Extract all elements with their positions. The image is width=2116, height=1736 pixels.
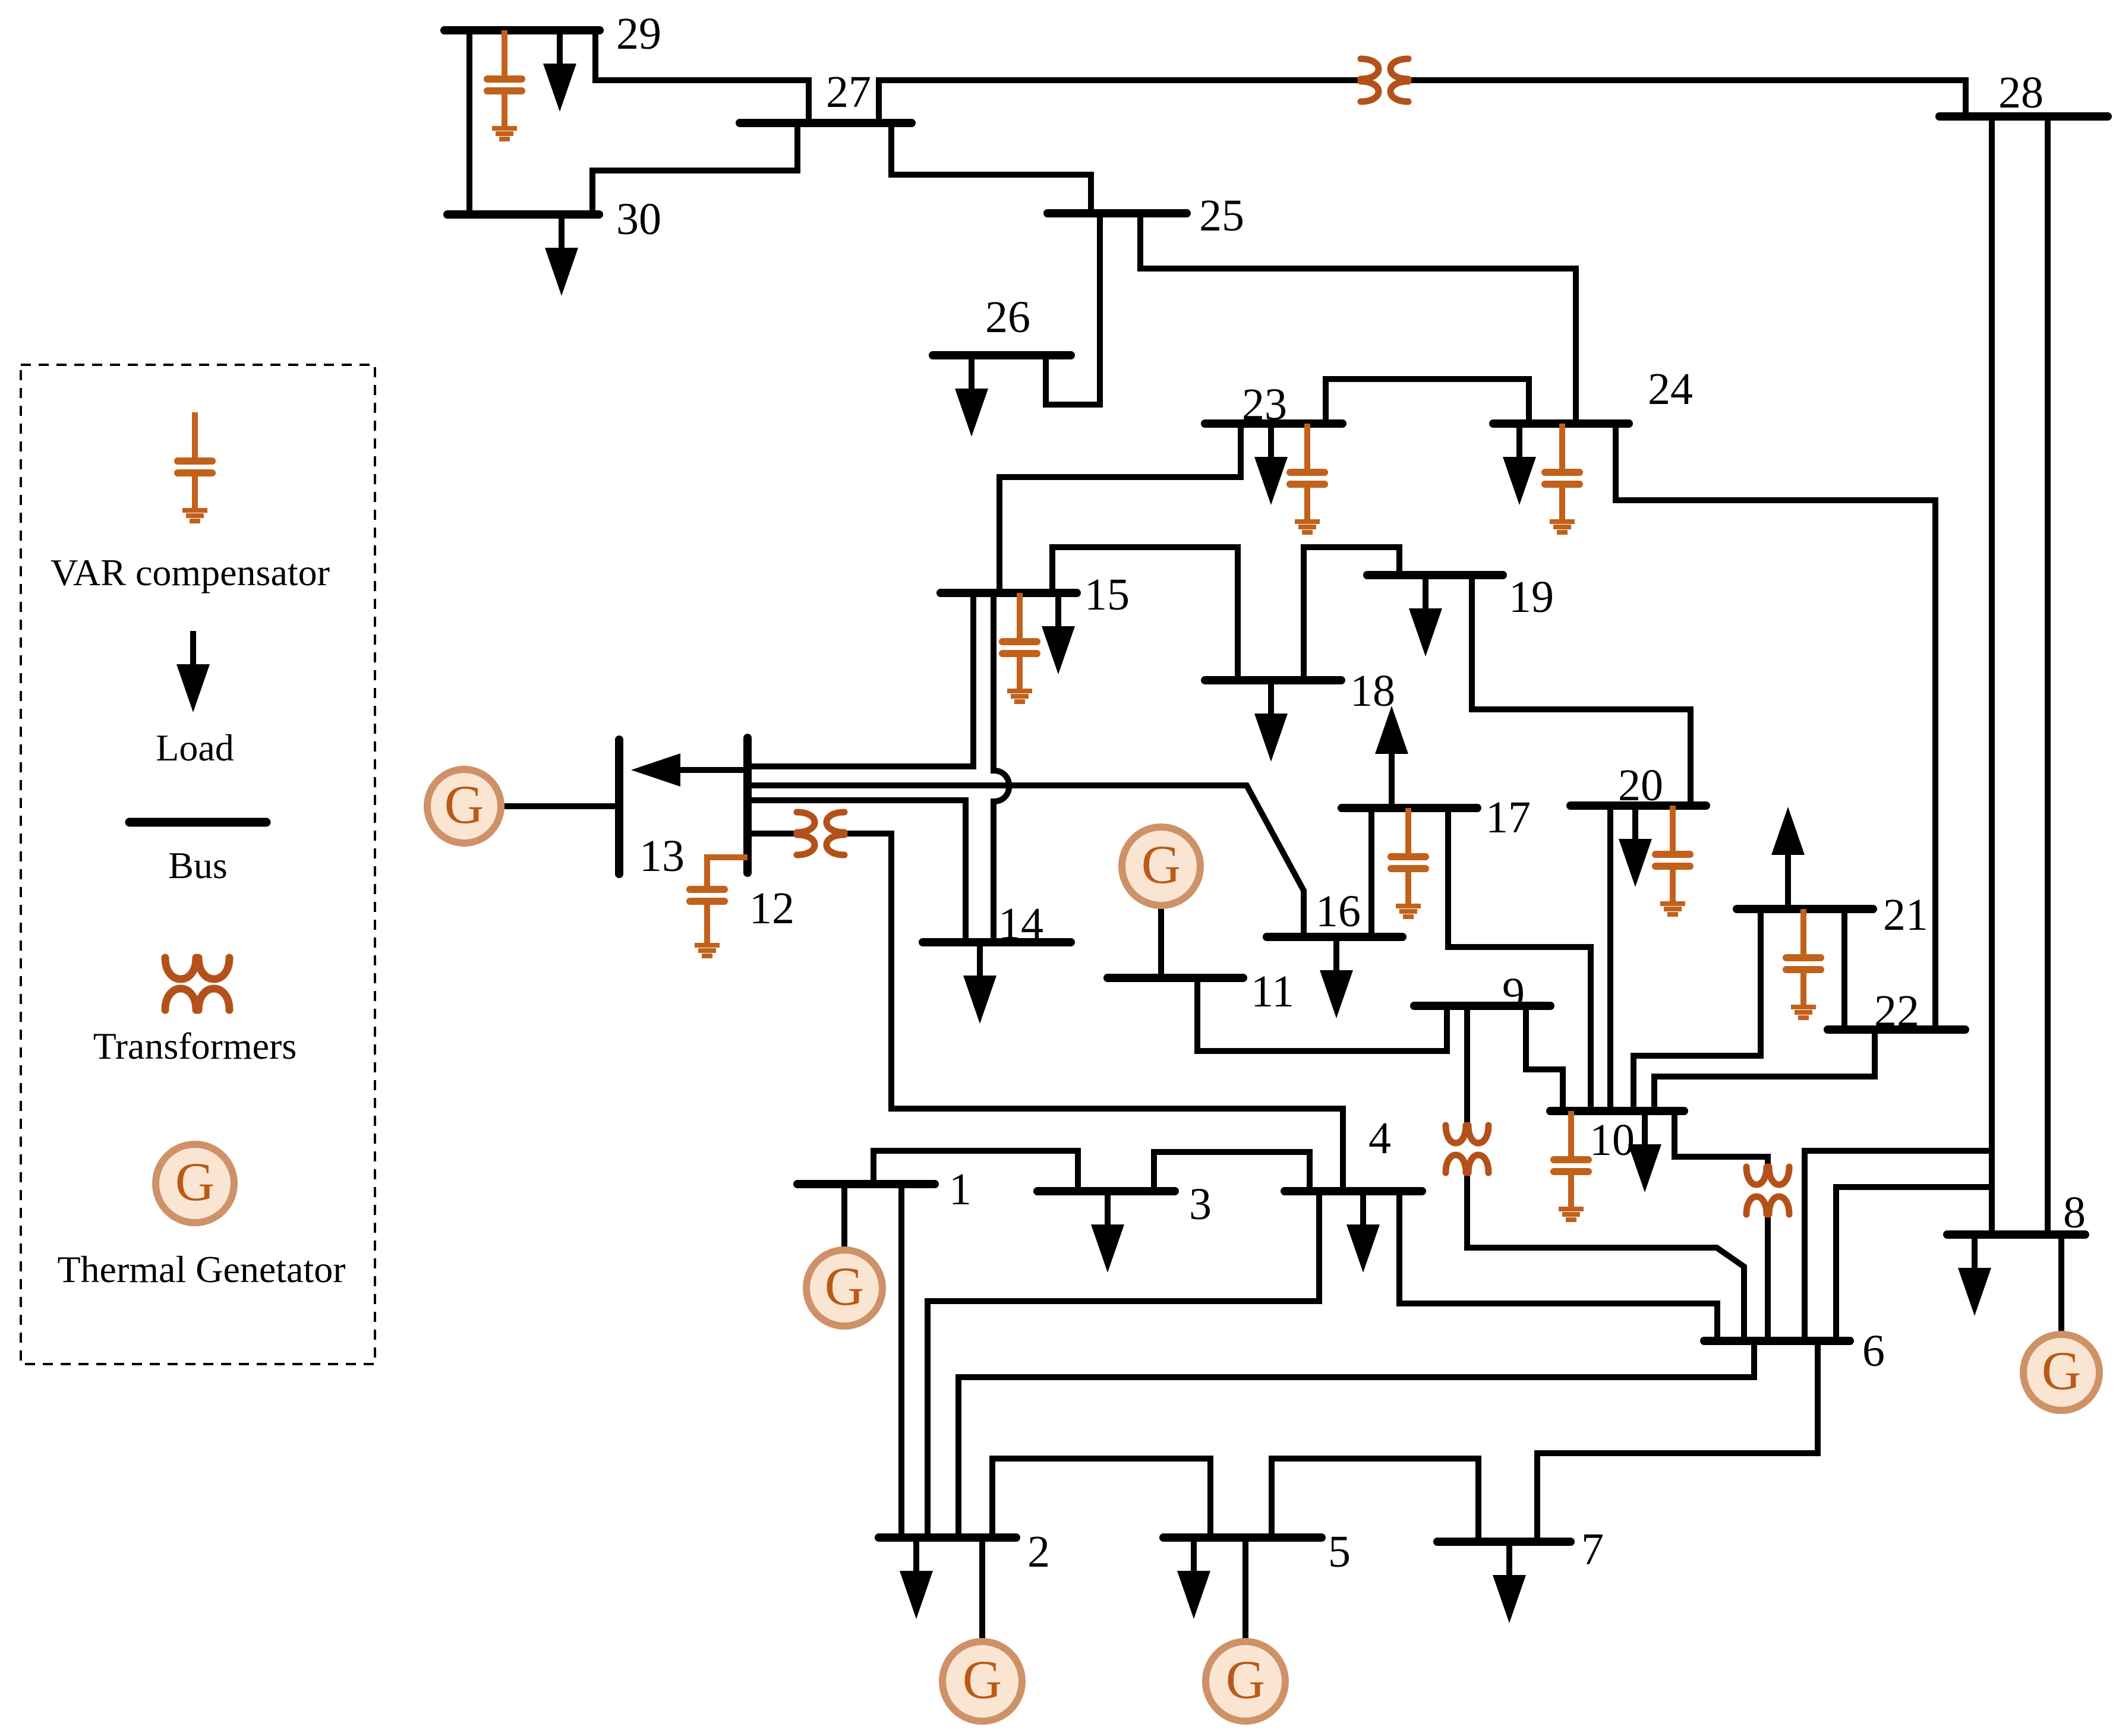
wire 18-19	[1304, 547, 1399, 680]
load arrow bus 12 pointing left	[631, 753, 748, 787]
VAR compensator bus 20	[1655, 806, 1690, 914]
wire 14-15 with hop over 12-16	[994, 593, 1009, 942]
bus 21	[1737, 905, 1873, 913]
svg-text:25: 25	[1199, 191, 1244, 241]
svg-text:9: 9	[1502, 969, 1525, 1019]
load arrow legend	[176, 631, 210, 712]
svg-text:18: 18	[1350, 666, 1395, 716]
bus 24	[1493, 419, 1629, 428]
wire 9-10	[1526, 1006, 1563, 1111]
VAR compensator bus 24	[1545, 424, 1579, 532]
bus 7	[1437, 1538, 1571, 1546]
legend box	[21, 365, 375, 1364]
VAR compensator bus 17	[1391, 808, 1426, 917]
bus 1	[797, 1180, 935, 1188]
wire G2 to bus 2	[979, 1538, 985, 1640]
wire 21-22	[1841, 909, 1847, 1030]
svg-text:16: 16	[1316, 886, 1361, 936]
svg-text:Bus: Bus	[168, 844, 228, 886]
load arrow bus 15	[1042, 593, 1075, 674]
svg-text:Transformers: Transformers	[93, 1025, 297, 1067]
transformer 4-12	[797, 812, 844, 855]
wire G11 to bus 11	[1158, 906, 1164, 978]
wire 2-6	[958, 1341, 1754, 1538]
VAR compensator bus 21	[1786, 909, 1821, 1018]
wire 16-17	[1368, 808, 1374, 937]
VAR compensator bus 15	[1002, 593, 1037, 702]
bus 12	[743, 738, 752, 873]
load arrow bus 2	[900, 1538, 933, 1619]
svg-text:22: 22	[1874, 986, 1919, 1036]
wire 10-21	[1633, 909, 1761, 1111]
load arrow bus 20	[1619, 806, 1652, 887]
bus 5	[1163, 1533, 1322, 1542]
svg-text:21: 21	[1883, 890, 1928, 940]
generator G2	[942, 1642, 1022, 1721]
load arrow bus 29	[543, 30, 576, 112]
bus 10	[1550, 1107, 1684, 1115]
wire 6-28 upper	[1805, 1151, 1992, 1341]
wire 10-20	[1607, 806, 1613, 1111]
svg-text:10: 10	[1590, 1115, 1635, 1165]
generator G5	[1206, 1642, 1285, 1721]
wire 12-16	[748, 785, 1304, 937]
svg-text:4: 4	[1368, 1113, 1391, 1163]
legend bus symbol	[130, 818, 266, 827]
svg-text:G: G	[2042, 1340, 2081, 1401]
svg-text:G: G	[1141, 834, 1181, 895]
svg-text:G: G	[444, 774, 484, 835]
wire 23-15	[999, 424, 1241, 593]
bus 29	[444, 26, 600, 34]
VAR compensator bus 29	[487, 30, 522, 139]
wire 10-17	[1448, 808, 1591, 1111]
generator G1	[806, 1250, 882, 1326]
bus 3	[1037, 1187, 1175, 1195]
bus 25	[1048, 209, 1187, 217]
wire 6-9	[1467, 1006, 1744, 1341]
bus 28	[1940, 112, 2108, 121]
load arrow bus 17 up	[1375, 706, 1408, 808]
svg-text:27: 27	[826, 67, 871, 117]
svg-text:19: 19	[1509, 572, 1554, 622]
load arrow bus 21 up	[1771, 807, 1805, 909]
wire 2-4	[928, 1191, 1319, 1538]
VAR compensator bus 23	[1290, 424, 1325, 532]
svg-text:20: 20	[1618, 760, 1663, 810]
wire 19-20	[1472, 575, 1691, 806]
svg-text:12: 12	[749, 883, 794, 933]
wire 6-10	[1674, 1111, 1768, 1341]
svg-text:29: 29	[616, 9, 661, 59]
wire 28-8 right	[2045, 116, 2051, 1235]
VAR compensator bus 10	[1554, 1111, 1588, 1220]
svg-text:G: G	[825, 1256, 864, 1317]
svg-text:6: 6	[1862, 1326, 1885, 1376]
VAR compensator bus 12	[690, 857, 748, 956]
svg-text:G: G	[1226, 1649, 1265, 1710]
wire 1-2	[898, 1184, 904, 1538]
load arrow bus 10	[1628, 1111, 1661, 1192]
svg-text:2: 2	[1027, 1527, 1050, 1577]
load arrow bus 30	[545, 214, 578, 296]
svg-text:G: G	[963, 1649, 1002, 1710]
svg-text:G: G	[175, 1151, 215, 1212]
bus 30	[447, 210, 599, 219]
generator G11	[1122, 827, 1200, 905]
svg-text:5: 5	[1328, 1527, 1351, 1577]
generator G8	[2023, 1334, 2099, 1410]
bus 17	[1342, 804, 1477, 812]
load arrow bus 5	[1177, 1538, 1210, 1619]
wire 10-22	[1654, 1030, 1875, 1111]
bus 20	[1571, 801, 1706, 810]
wire 4-12	[748, 834, 1343, 1191]
load arrow bus 4	[1346, 1191, 1380, 1273]
svg-text:28: 28	[1998, 68, 2044, 118]
load arrow bus 8	[1958, 1235, 1991, 1316]
wire 29-27	[595, 30, 809, 123]
wire 1-3	[873, 1151, 1078, 1191]
legend transformer symbol	[165, 958, 229, 1010]
bus 22	[1828, 1025, 1965, 1034]
wire 2-5	[992, 1459, 1210, 1538]
wire 6-28 lower	[1836, 1187, 1992, 1341]
load arrow bus 18	[1254, 680, 1288, 762]
svg-text:26: 26	[985, 292, 1030, 342]
svg-text:VAR compensator: VAR compensator	[51, 551, 330, 594]
wire 30-27	[592, 123, 797, 214]
wire 12-14	[748, 800, 966, 942]
bus 18	[1205, 676, 1341, 684]
svg-text:11: 11	[1251, 967, 1294, 1017]
bus 27	[740, 119, 912, 127]
load arrow bus 14	[963, 942, 996, 1024]
wire 22-24	[1616, 424, 1935, 1030]
wire 4-6	[1399, 1191, 1717, 1341]
load arrow bus 24	[1503, 424, 1536, 505]
wire 15-18	[1052, 547, 1238, 680]
svg-text:7: 7	[1581, 1524, 1604, 1574]
wire 9-11	[1197, 978, 1447, 1051]
svg-text:8: 8	[2063, 1188, 2086, 1238]
svg-text:17: 17	[1486, 793, 1531, 842]
wire G5 to bus 5	[1243, 1538, 1248, 1640]
svg-text:13: 13	[639, 831, 685, 881]
svg-text:23: 23	[1242, 380, 1287, 430]
bus 16	[1267, 933, 1402, 941]
load arrow bus 26	[955, 355, 988, 437]
bus 8	[1947, 1230, 2085, 1239]
svg-text:Thermal Genetator: Thermal Genetator	[57, 1248, 345, 1290]
bus 6	[1704, 1337, 1850, 1345]
load arrow bus 19	[1409, 575, 1442, 656]
svg-text:3: 3	[1189, 1179, 1212, 1229]
load arrow bus 3	[1091, 1191, 1124, 1273]
generator legend G	[156, 1144, 234, 1223]
load arrow bus 7	[1493, 1542, 1526, 1623]
bus 13	[615, 740, 623, 874]
transformer 6-9	[1446, 1125, 1489, 1173]
wire 27-25	[891, 123, 1091, 213]
wire 28-8 left	[1989, 116, 1995, 1235]
svg-text:Load: Load	[156, 727, 234, 769]
wire 12-15	[748, 593, 973, 766]
svg-text:24: 24	[1648, 364, 1693, 414]
transformer 27-28	[1361, 59, 1408, 102]
bus 4	[1285, 1187, 1422, 1195]
wire G13 to bus 13	[504, 803, 619, 809]
svg-text:14: 14	[998, 899, 1043, 949]
svg-text:30: 30	[616, 194, 661, 244]
bus 11	[1108, 974, 1243, 982]
wire 5-7	[1272, 1459, 1478, 1542]
wire 3-4	[1154, 1152, 1310, 1191]
wire G8 to bus 8	[2058, 1235, 2064, 1332]
VAR compensator legend	[178, 412, 212, 521]
wire 29-30	[466, 30, 472, 214]
svg-text:15: 15	[1084, 570, 1130, 620]
load arrow bus 16	[1320, 937, 1353, 1018]
bus 26	[933, 351, 1071, 359]
svg-text:1: 1	[949, 1164, 972, 1214]
wire 27-28	[879, 80, 1966, 123]
generator G13	[427, 769, 501, 843]
wire 23-24	[1326, 379, 1529, 424]
bus 15	[941, 589, 1077, 597]
wire 25-24	[1140, 213, 1576, 424]
bus 9	[1414, 1002, 1550, 1010]
load arrow bus 23	[1254, 424, 1288, 505]
bus 19	[1367, 571, 1503, 579]
transformer 6-10	[1746, 1167, 1789, 1214]
bus 23	[1205, 419, 1342, 428]
bus 14	[923, 938, 1071, 946]
wire 25-26	[1046, 213, 1100, 405]
wire G1 to bus 1	[841, 1184, 847, 1248]
bus 2	[879, 1533, 1016, 1542]
wire 6-7	[1537, 1341, 1818, 1542]
